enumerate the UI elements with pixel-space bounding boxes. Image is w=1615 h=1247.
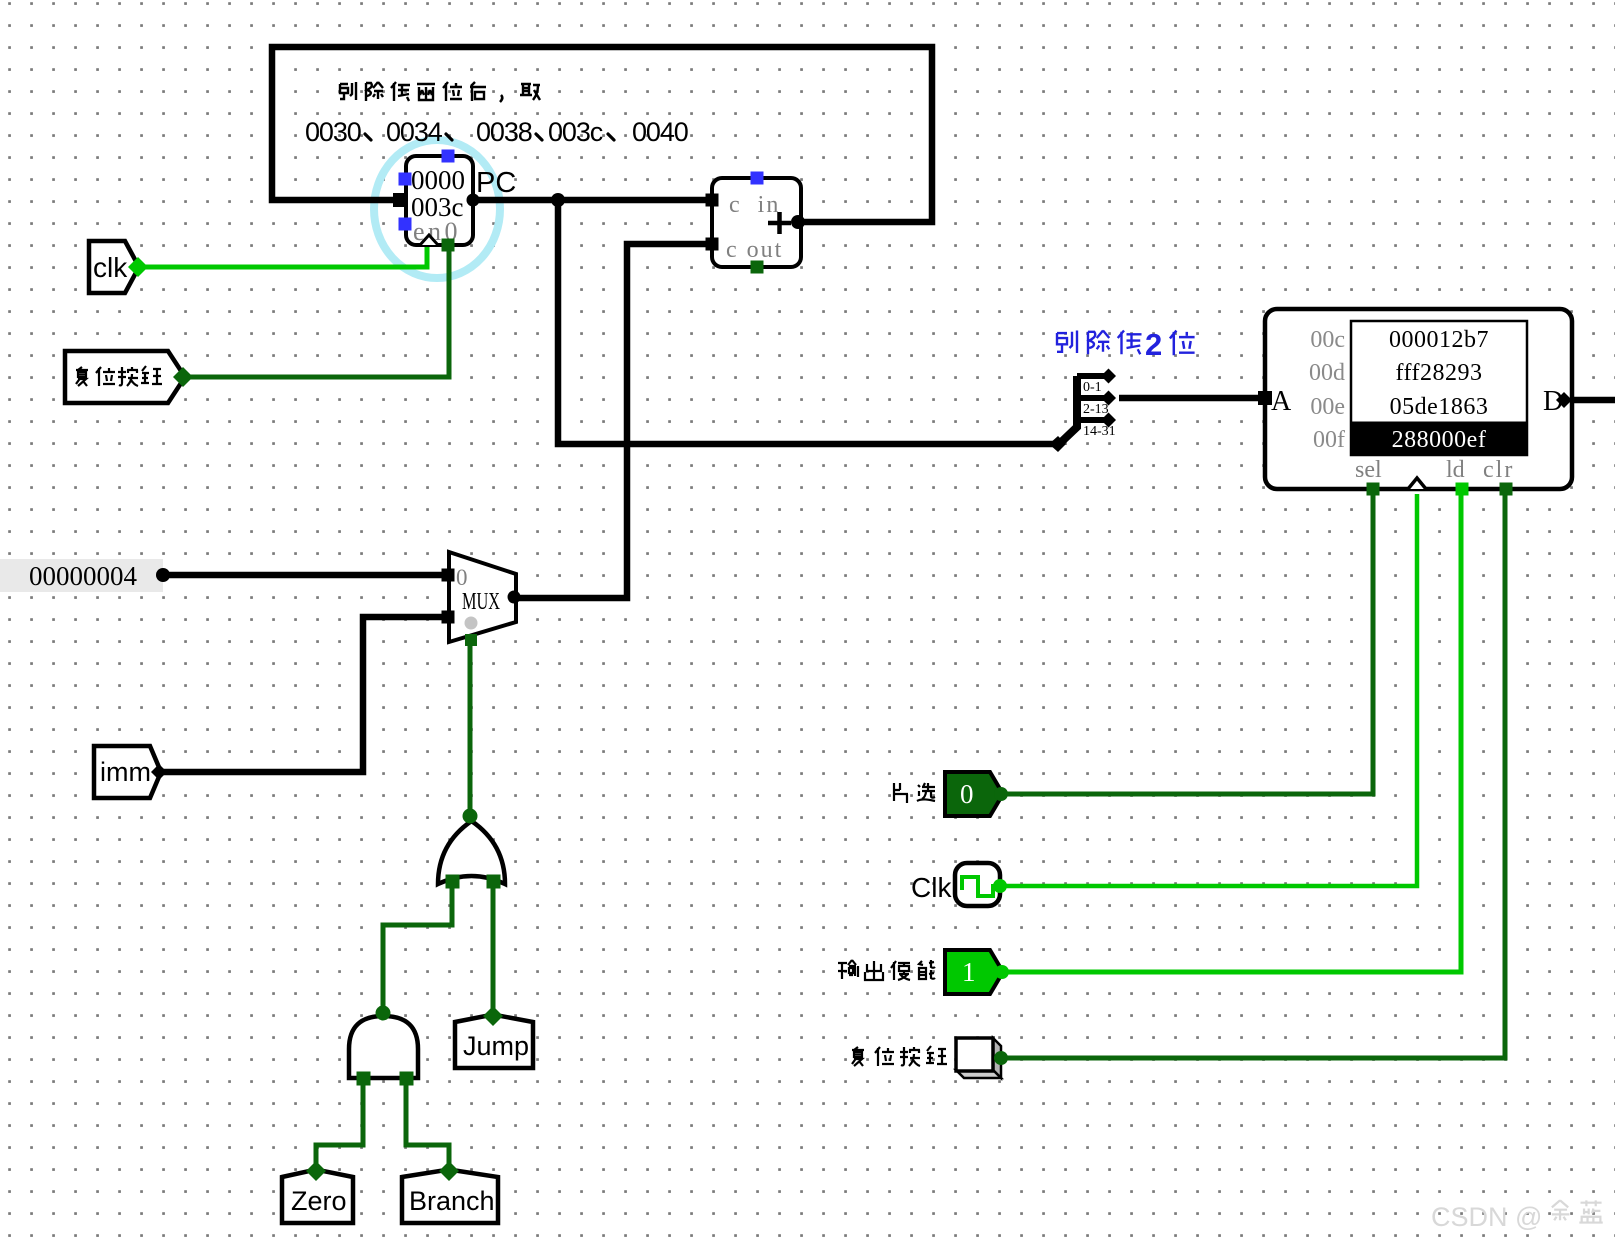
svg-text:imm: imm bbox=[100, 757, 151, 787]
svg-text:003c: 003c bbox=[548, 117, 603, 147]
wire: feedback loop from adder output to PC input bbox=[272, 47, 932, 222]
svg-text:05de1863: 05de1863 bbox=[1390, 394, 1489, 420]
cyan highlight circle around PC bbox=[374, 140, 500, 278]
wire: Zero to AND input left bbox=[316, 1072, 363, 1170]
button 复位按钮 (right) bbox=[852, 1038, 1008, 1078]
svg-text:MUX: MUX bbox=[462, 589, 500, 615]
svg-text:0: 0 bbox=[960, 779, 974, 809]
wire: 片选 to RAM sel bbox=[1001, 494, 1373, 794]
svg-text:14-31: 14-31 bbox=[1083, 424, 1116, 439]
wire: MUX output up to adder input B bbox=[515, 244, 708, 598]
svg-text:A: A bbox=[1271, 386, 1292, 417]
svg-text:0-1: 0-1 bbox=[1083, 380, 1102, 395]
constant 00000004 bbox=[0, 559, 170, 592]
input pin Zero bbox=[282, 1161, 353, 1223]
node: junction on PC output wire bbox=[551, 193, 565, 207]
wire: junction down and right to splitter bbox=[558, 200, 1056, 444]
wire: splitter bits 2-13 to RAM address A bbox=[1119, 395, 1260, 402]
input pin 输出使能 (output enable, value 1) bbox=[838, 950, 1009, 994]
input pin clk bbox=[89, 241, 148, 293]
input pin 片选 (chip select, value 0) bbox=[894, 772, 1008, 816]
svg-text:clr: clr bbox=[1483, 457, 1514, 483]
svg-text:2: 2 bbox=[1145, 327, 1162, 362]
OR gate bbox=[438, 809, 505, 889]
adder U1 bbox=[706, 172, 806, 274]
blue annotation 刨除低2位 bbox=[1057, 331, 1195, 356]
wire: imm to MUX input 1 bbox=[159, 617, 445, 772]
svg-text:sel: sel bbox=[1355, 457, 1382, 483]
svg-text:288000ef: 288000ef bbox=[1392, 427, 1487, 453]
wire: Clk to RAM clock bbox=[1000, 494, 1417, 886]
svg-text:CSDN @: CSDN @ bbox=[1431, 1202, 1542, 1232]
multiplexer MUX bbox=[442, 552, 521, 646]
register PC bbox=[393, 150, 480, 252]
svg-text:0030: 0030 bbox=[305, 117, 361, 147]
splitter (discard low 2 bits) bbox=[1049, 369, 1116, 453]
wire: RAM data output D bbox=[1572, 397, 1615, 404]
wire: Branch to AND input right bbox=[406, 1072, 449, 1170]
svg-text:00000004: 00000004 bbox=[29, 561, 138, 591]
svg-text:Clk: Clk bbox=[911, 872, 952, 903]
svg-text:0000: 0000 bbox=[411, 165, 465, 195]
svg-text:00d: 00d bbox=[1309, 360, 1345, 386]
svg-text:00e: 00e bbox=[1310, 394, 1345, 420]
svg-text:0: 0 bbox=[456, 565, 468, 590]
svg-text:1: 1 bbox=[962, 957, 976, 987]
wire: 复位按钮 to RAM clr bbox=[1001, 494, 1505, 1058]
svg-text:0034: 0034 bbox=[386, 117, 443, 147]
svg-text:00f: 00f bbox=[1313, 427, 1345, 453]
wire: OR output to MUX select bbox=[468, 638, 473, 816]
AND gate bbox=[349, 1006, 418, 1086]
svg-text:ld: ld bbox=[1446, 457, 1465, 483]
input pin Branch bbox=[402, 1161, 498, 1223]
svg-text:00c: 00c bbox=[1310, 327, 1345, 353]
svg-text:0038: 0038 bbox=[476, 117, 532, 147]
wire: AND output to OR input left bbox=[383, 880, 452, 1014]
input pin imm bbox=[94, 746, 167, 798]
wire: clk to PC enable bbox=[138, 247, 427, 267]
svg-text:Branch: Branch bbox=[409, 1186, 495, 1216]
wire: PC output to adder input A with junction bbox=[471, 197, 708, 204]
svg-text:000012b7: 000012b7 bbox=[1389, 327, 1489, 353]
svg-text:2-13: 2-13 bbox=[1083, 402, 1109, 417]
annotation text line 2 (addresses) bbox=[305, 117, 688, 147]
svg-text:clk: clk bbox=[93, 252, 128, 283]
svg-text:fff28293: fff28293 bbox=[1395, 360, 1482, 386]
svg-text:c out: c out bbox=[726, 237, 783, 263]
clock Clk bbox=[911, 863, 1007, 906]
input pin 复位按钮 (left) bbox=[65, 351, 193, 403]
svg-text:PC: PC bbox=[476, 167, 516, 199]
watermark bbox=[1431, 1200, 1603, 1232]
wire: Jump to OR input right bbox=[491, 880, 496, 1016]
wire: 输出使能 to RAM ld bbox=[1002, 494, 1461, 972]
RAM / ROM memory U2 bbox=[1258, 309, 1572, 496]
svg-text:Jump: Jump bbox=[463, 1031, 529, 1061]
wire: constant to MUX input 0 bbox=[163, 572, 445, 579]
svg-text:0040: 0040 bbox=[632, 117, 688, 147]
svg-text:Zero: Zero bbox=[291, 1186, 347, 1216]
annotation text line 1 (Chinese) bbox=[340, 82, 540, 102]
input pin Jump bbox=[455, 1006, 533, 1068]
wire: reset button to PC bbox=[183, 246, 449, 377]
svg-text:c in: c in bbox=[729, 192, 780, 218]
